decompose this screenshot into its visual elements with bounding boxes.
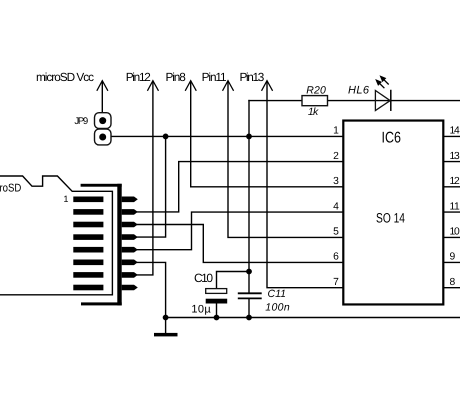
svg-text:100n: 100n — [265, 301, 290, 313]
svg-text:JP9: JP9 — [74, 116, 88, 127]
svg-text:11: 11 — [450, 201, 460, 212]
svg-text:14: 14 — [450, 126, 460, 137]
svg-text:6: 6 — [333, 252, 339, 263]
svg-text:7: 7 — [333, 277, 339, 288]
svg-text:Pin13: Pin13 — [240, 70, 265, 84]
svg-text:2: 2 — [333, 151, 339, 162]
svg-text:1k: 1k — [308, 106, 319, 118]
svg-text:SO 14: SO 14 — [376, 210, 405, 225]
svg-text:5: 5 — [333, 227, 339, 238]
svg-text:10µ: 10µ — [191, 303, 211, 315]
svg-text:12: 12 — [450, 176, 460, 187]
svg-text:Pin8: Pin8 — [166, 70, 187, 84]
svg-text:8: 8 — [450, 277, 456, 288]
svg-text:R20: R20 — [306, 84, 326, 96]
svg-text:Pin12: Pin12 — [126, 70, 151, 84]
svg-text:HL6: HL6 — [348, 85, 370, 97]
svg-text:1: 1 — [333, 126, 339, 137]
svg-text:10: 10 — [450, 227, 460, 238]
svg-text:Pin11: Pin11 — [202, 70, 227, 84]
svg-text:9: 9 — [450, 252, 456, 263]
svg-text:microSD Vcc: microSD Vcc — [36, 70, 94, 84]
svg-text:4: 4 — [333, 201, 339, 212]
svg-text:C10: C10 — [194, 271, 213, 285]
svg-text:13: 13 — [450, 151, 460, 162]
svg-text:IC6: IC6 — [382, 129, 402, 146]
svg-text:microSD: microSD — [0, 183, 21, 195]
svg-text:3: 3 — [333, 176, 339, 187]
svg-text:C11: C11 — [268, 288, 287, 300]
svg-text:1: 1 — [63, 194, 68, 204]
